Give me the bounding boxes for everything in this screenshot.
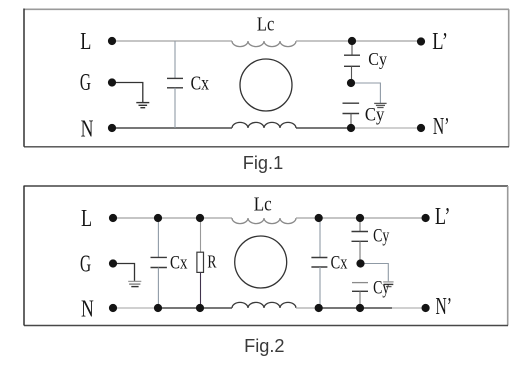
svg-text:N’: N’ [433,114,450,140]
svg-text:L: L [81,206,92,232]
svg-text:Cy: Cy [373,278,390,298]
svg-text:L: L [80,29,91,55]
svg-text:G: G [80,251,91,277]
svg-text:L’: L’ [435,204,451,230]
svg-text:Fig.2: Fig.2 [244,336,284,356]
svg-text:N’: N’ [436,294,453,320]
svg-text:Cy: Cy [368,49,387,69]
svg-text:L’: L’ [432,29,448,55]
svg-text:Cy: Cy [365,106,385,126]
svg-text:Fig.1: Fig.1 [243,153,283,173]
svg-text:Cx: Cx [170,252,188,273]
svg-text:G: G [80,70,91,96]
svg-text:R: R [207,252,216,272]
svg-text:Lc: Lc [257,14,275,36]
svg-text:N: N [81,296,94,322]
svg-text:Cx: Cx [331,252,348,273]
svg-text:Cy: Cy [373,226,390,246]
svg-text:Cx: Cx [191,72,209,94]
svg-text:Lc: Lc [254,194,272,216]
svg-text:N: N [81,116,94,142]
